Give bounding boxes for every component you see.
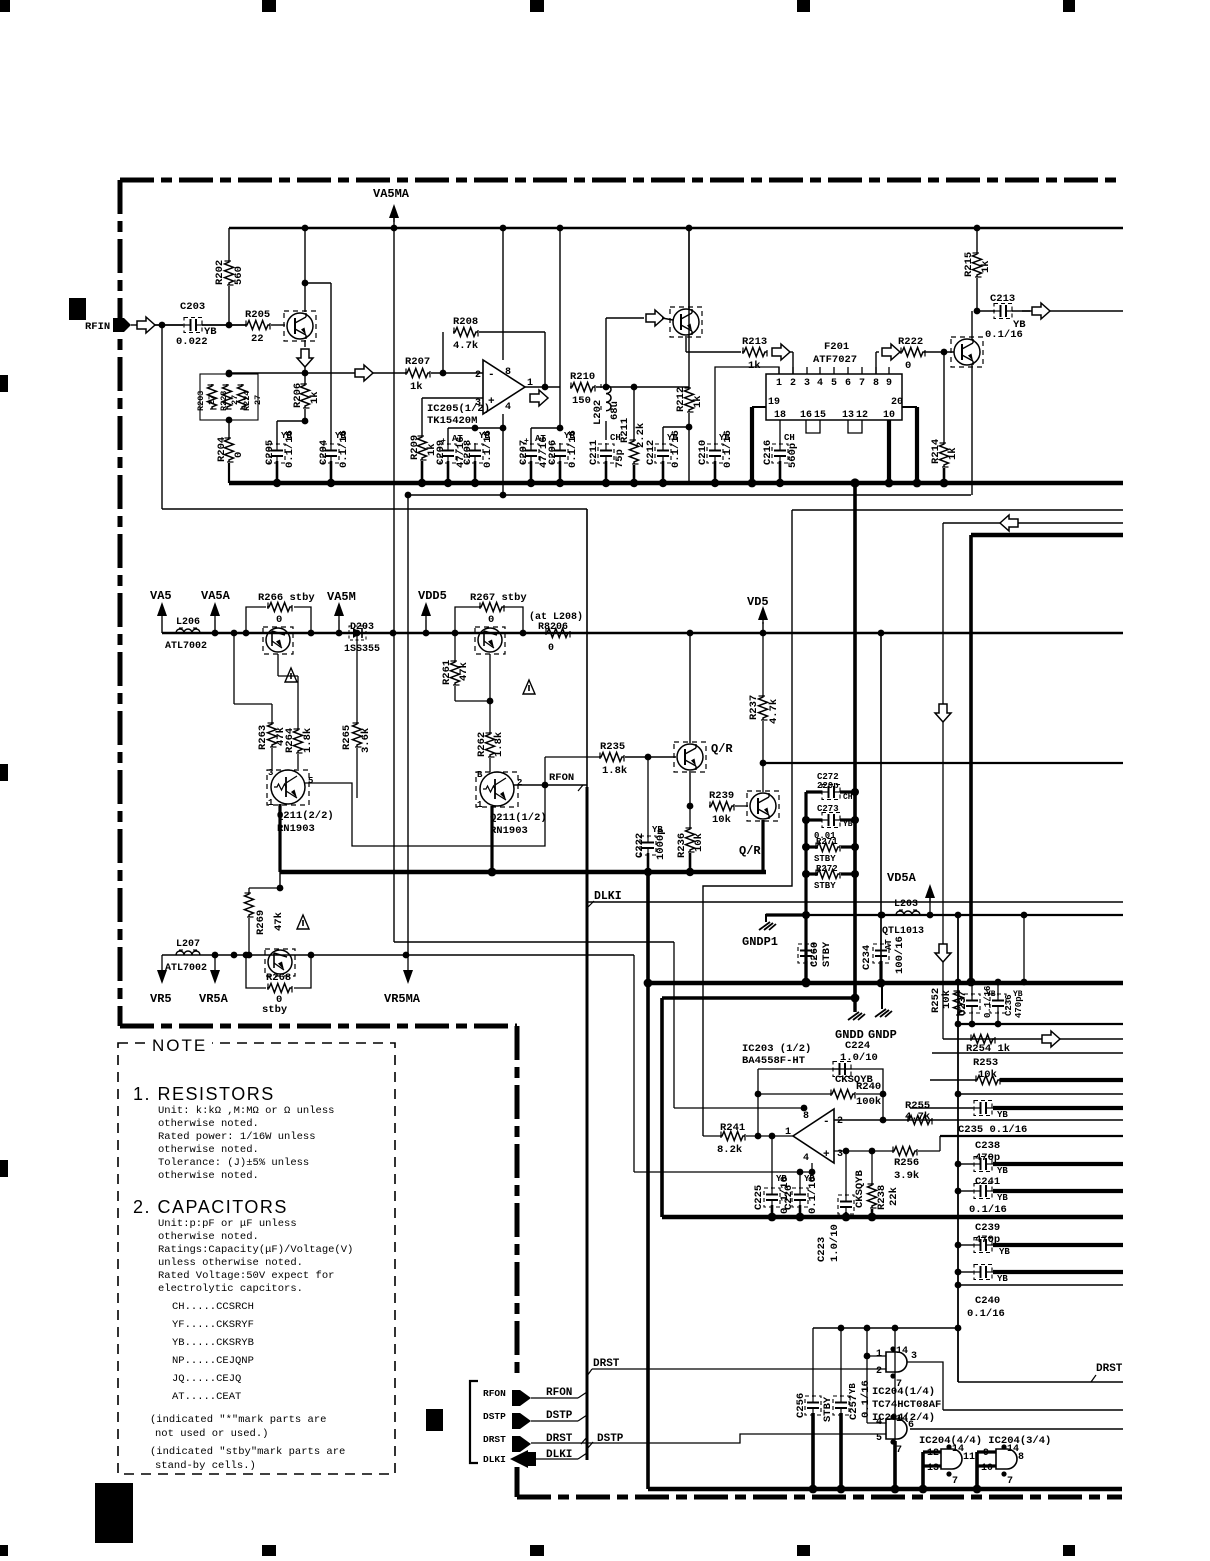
svg-text:8: 8 <box>873 378 879 389</box>
capacitor C272 <box>828 786 830 798</box>
vertical x408 <box>407 495 409 955</box>
wire R253 y1080 <box>930 1079 976 1081</box>
svg-text:C203: C203 <box>180 301 205 313</box>
svg-text:CH.....CCSRCH: CH.....CCSRCH <box>172 1301 254 1313</box>
svg-text:1k: 1k <box>980 260 992 273</box>
svg-text:R268: R268 <box>266 972 291 984</box>
wire y1328 <box>813 1327 958 1329</box>
resistor R211 <box>633 387 635 439</box>
resistor block R203 R223 R224 <box>200 374 258 420</box>
pin3 wire + R209 <box>422 397 483 399</box>
svg-text:470p: 470p <box>1014 996 1024 1018</box>
resistor R202 <box>228 228 230 260</box>
svg-text:C211: C211 <box>588 440 600 465</box>
svg-text:Ratings:Capacity(μF)/Voltage(V: Ratings:Capacity(μF)/Voltage(V) <box>158 1244 353 1256</box>
svg-text:B: B <box>477 770 483 780</box>
resistor R264 <box>277 654 279 676</box>
svg-text:STBY: STBY <box>814 881 836 891</box>
svg-text:14: 14 <box>896 1346 908 1357</box>
svg-text:C226: C226 <box>783 1185 795 1210</box>
svg-text:DRST: DRST <box>593 1358 620 1370</box>
GNDD GNDP grounds <box>851 994 860 1003</box>
svg-text:10k: 10k <box>693 833 705 852</box>
svg-text:C216: C216 <box>762 440 774 465</box>
gate IC204(1/4) <box>886 1352 907 1372</box>
wire y942 <box>394 941 674 943</box>
capacitor C256 <box>807 1402 819 1404</box>
svg-text:CKSQYB: CKSQYB <box>854 1169 866 1208</box>
pin16-15 loop <box>806 420 820 433</box>
svg-text:1: 1 <box>776 378 782 389</box>
heavy x648 <box>646 872 650 1489</box>
svg-text:YB: YB <box>848 1383 858 1394</box>
capacitor C225 <box>771 1136 773 1189</box>
svg-text:VR5: VR5 <box>150 992 172 1006</box>
svg-text:+: + <box>823 1149 830 1161</box>
svg-text:R205: R205 <box>245 309 270 321</box>
collector join <box>971 311 973 340</box>
svg-text:560p: 560p <box>787 443 799 468</box>
svg-text:10k: 10k <box>941 990 953 1009</box>
svg-text:47k: 47k <box>273 912 285 931</box>
svg-text:otherwise noted.: otherwise noted. <box>158 1231 259 1243</box>
wire y1285 <box>958 1284 1123 1286</box>
gate IC204(2/4) <box>886 1419 907 1439</box>
wire y1094 <box>958 1093 1123 1095</box>
svg-text:1k: 1k <box>309 391 321 404</box>
vertical x634 <box>633 955 635 1172</box>
svg-text:2: 2 <box>475 370 481 381</box>
resistor R269 <box>249 887 280 889</box>
heavy bus y872 <box>280 870 766 875</box>
svg-text:7: 7 <box>859 378 865 389</box>
svg-text:YF.....CKSRYF: YF.....CKSRYF <box>172 1319 254 1331</box>
pin5 wire to RFON node <box>305 783 545 846</box>
svg-text:Unit:p:pF or μF unless: Unit:p:pF or μF unless <box>158 1218 297 1230</box>
capacitor C222 <box>647 757 649 838</box>
wire R254 y1039 <box>943 1038 1123 1040</box>
capacitor C204 <box>325 450 337 452</box>
svg-text:10: 10 <box>883 410 895 421</box>
wire y1136 <box>940 1135 1123 1137</box>
svg-text:12: 12 <box>856 410 868 421</box>
svg-text:4.7k: 4.7k <box>768 699 780 724</box>
svg-text:-: - <box>823 1116 830 1128</box>
svg-text:4: 4 <box>505 402 511 413</box>
heavy x855 GNDD <box>853 483 857 998</box>
svg-text:0.1/16: 0.1/16 <box>567 430 579 468</box>
svg-text:22k: 22k <box>888 1187 900 1206</box>
svg-text:0.1/16: 0.1/16 <box>860 1380 872 1418</box>
registration marks <box>0 0 10 12</box>
svg-text:1.0/10: 1.0/10 <box>829 1224 841 1262</box>
svg-text:R223: R223 <box>219 391 229 411</box>
svg-text:15: 15 <box>814 410 826 421</box>
NOTE box <box>118 1043 395 1474</box>
capacitor C260 <box>800 950 812 952</box>
svg-text:BA4558F-HT: BA4558F-HT <box>742 1055 805 1067</box>
capacitor C210 <box>709 450 721 452</box>
svg-text:R212: R212 <box>675 387 687 412</box>
emitter heavy to bus <box>761 820 764 872</box>
svg-text:TC74HCT08AF: TC74HCT08AF <box>872 1399 941 1411</box>
resistor R236 <box>689 806 691 827</box>
svg-text:-: - <box>488 369 495 381</box>
transistor QR1 <box>677 744 703 770</box>
svg-text:Rated Voltage:50V expect for: Rated Voltage:50V expect for <box>158 1270 334 1282</box>
svg-text:YB: YB <box>999 1247 1010 1257</box>
svg-text:DRST: DRST <box>483 1434 506 1445</box>
svg-text:560: 560 <box>233 266 245 285</box>
pin4 wire <box>502 414 504 495</box>
svg-text:8: 8 <box>803 1111 809 1122</box>
svg-text:R271: R271 <box>816 837 838 847</box>
pin8 wire <box>674 1107 804 1109</box>
pin3 wire R256 <box>834 1150 892 1152</box>
svg-text:0: 0 <box>905 360 911 372</box>
svg-text:150: 150 <box>572 395 591 407</box>
svg-text:9: 9 <box>886 378 892 389</box>
svg-text:L202: L202 <box>592 400 604 425</box>
heavy bus y535 <box>971 533 1123 538</box>
svg-text:GNDP1: GNDP1 <box>742 935 778 949</box>
resistor R204 <box>228 420 230 437</box>
svg-text:2: 2 <box>517 778 522 788</box>
svg-text:R236: R236 <box>676 833 688 858</box>
wire DLKI y902 <box>587 901 1123 903</box>
collector to rail <box>688 228 690 309</box>
svg-text:NP.....CEJQNP: NP.....CEJQNP <box>172 1355 254 1367</box>
resistor R271 <box>806 845 818 848</box>
svg-text:1. RESISTORS: 1. RESISTORS <box>133 1084 275 1104</box>
pin2 wire R255 <box>907 1116 932 1125</box>
svg-text:YB: YB <box>997 1274 1008 1284</box>
R268 loop below <box>246 955 266 988</box>
wire C241 y1191 <box>958 1190 973 1192</box>
svg-text:1k: 1k <box>692 395 704 408</box>
svg-text:R256: R256 <box>894 1157 919 1169</box>
svg-text:C239: C239 <box>975 1222 1000 1234</box>
svg-text:20: 20 <box>891 397 903 408</box>
wire collector <box>304 228 306 312</box>
svg-text:VA5A: VA5A <box>201 589 231 603</box>
wire y373 <box>229 372 406 374</box>
capacitor C226 <box>799 1172 801 1189</box>
transistor T1 <box>266 628 290 652</box>
svg-text:DSTP: DSTP <box>483 1411 506 1422</box>
resistor R265 <box>356 633 358 722</box>
wire C239 y1245 <box>958 1244 973 1246</box>
svg-text:IC203 (1/2): IC203 (1/2) <box>742 1043 811 1055</box>
capacitor C241 <box>980 1185 982 1197</box>
connector bracket <box>470 1381 478 1463</box>
svg-text:DRST: DRST <box>546 1433 573 1445</box>
svg-text:6: 6 <box>845 378 851 389</box>
svg-text:L203: L203 <box>894 899 918 910</box>
svg-text:YB: YB <box>997 1166 1008 1176</box>
svg-text:R239: R239 <box>709 790 734 802</box>
wire C213 out y311 <box>1022 310 1123 312</box>
resistor R214 <box>943 352 945 442</box>
svg-text:27: 27 <box>230 395 240 405</box>
svg-text:stand-by cells.): stand-by cells.) <box>155 1460 256 1472</box>
resistor R253 <box>975 1076 1000 1085</box>
wire y1053 <box>932 1052 1123 1054</box>
svg-text:0: 0 <box>233 452 245 458</box>
svg-text:R264: R264 <box>284 728 296 753</box>
pin8 wire to R222 <box>875 352 877 374</box>
capacitor C239 <box>980 1239 982 1251</box>
svg-text:C240: C240 <box>975 1295 1000 1307</box>
svg-text:VR5A: VR5A <box>199 992 229 1006</box>
svg-text:R237: R237 <box>748 695 760 720</box>
vertical x943 arrows <box>942 523 944 1039</box>
op-amp IC205 <box>483 360 525 414</box>
wire DRST y1382 <box>958 1381 1123 1383</box>
svg-text:0: 0 <box>548 643 554 654</box>
svg-text:stby: stby <box>262 1004 288 1016</box>
rail y633 <box>162 632 1123 634</box>
svg-text:1000p: 1000p <box>655 828 667 860</box>
heavy ground y1489 <box>648 1487 1122 1492</box>
capacitor C203 <box>190 319 192 331</box>
capacitor C212 <box>657 450 669 452</box>
svg-text:0.1/16: 0.1/16 <box>482 430 494 468</box>
emitter heavy <box>490 806 493 872</box>
svg-text:VD5: VD5 <box>747 595 769 609</box>
svg-text:ATL7002: ATL7002 <box>165 641 207 652</box>
inductor L203 <box>896 911 920 915</box>
svg-text:R209: R209 <box>409 435 421 460</box>
svg-text:C224: C224 <box>845 1040 870 1052</box>
svg-text:3.9k: 3.9k <box>894 1170 919 1182</box>
svg-text:3: 3 <box>804 378 810 389</box>
wire y523 with left arrow <box>943 522 1123 524</box>
svg-text:3.6k: 3.6k <box>360 728 372 753</box>
wire gate2 out y1429 <box>910 1428 1123 1430</box>
svg-text:Q/R: Q/R <box>739 844 761 858</box>
svg-text:C208: C208 <box>462 440 474 465</box>
svg-text:CH: CH <box>843 793 853 802</box>
svg-text:C237: C237 <box>957 991 969 1016</box>
svg-text:Rated power: 1/16W unless: Rated power: 1/16W unless <box>158 1131 316 1143</box>
svg-text:C234: C234 <box>861 945 873 970</box>
heavy x662 + y998 arm <box>660 998 664 1217</box>
svg-text:18: 18 <box>774 410 786 421</box>
svg-text:13: 13 <box>842 410 854 421</box>
resistor R262 <box>489 654 491 732</box>
svg-text:R267 stby: R267 stby <box>470 592 527 604</box>
svg-text:VD5A: VD5A <box>887 871 917 885</box>
svg-text:4: 4 <box>803 1153 809 1164</box>
capacitor C236 <box>997 982 999 996</box>
svg-text:C205: C205 <box>264 440 276 465</box>
inductor L207 <box>176 951 200 955</box>
warning mark <box>523 680 535 694</box>
svg-text:RFON: RFON <box>546 1387 572 1399</box>
svg-text:VA5M: VA5M <box>327 590 356 604</box>
wire C235 y1108 <box>910 1107 973 1109</box>
stem x958 <box>957 915 959 1382</box>
svg-text:4.7k: 4.7k <box>905 1111 930 1123</box>
svg-text:1.8k: 1.8k <box>302 728 314 753</box>
pin19 heavy gnd <box>752 406 766 408</box>
svg-text:10k: 10k <box>712 814 731 826</box>
warning mark <box>285 668 297 682</box>
capacitor C213 <box>977 310 995 312</box>
resistor R212 <box>688 228 690 387</box>
svg-text:C256: C256 <box>795 1393 807 1418</box>
svg-text:14: 14 <box>1007 1444 1019 1455</box>
wire R263 <box>233 633 235 704</box>
svg-text:IC204(4/4) IC204(3/4): IC204(4/4) IC204(3/4) <box>919 1435 1051 1447</box>
capacitor C273 <box>806 818 822 821</box>
transistor T4 <box>268 950 292 974</box>
svg-text:ATF7027: ATF7027 <box>813 354 857 366</box>
svg-text:DSTP: DSTP <box>546 1410 573 1422</box>
svg-text:DLKI: DLKI <box>594 890 622 903</box>
svg-text:R224: R224 <box>242 391 252 411</box>
svg-text:IC204(2/4): IC204(2/4) <box>872 1412 935 1424</box>
svg-text:not used or used.): not used or used.) <box>155 1428 268 1440</box>
svg-text:19: 19 <box>768 397 780 408</box>
wire y495 <box>408 494 971 496</box>
emitter down to y495 <box>971 365 973 495</box>
svg-text:2: 2 <box>876 1366 882 1377</box>
svg-text:14: 14 <box>952 1444 964 1455</box>
wire gate1 out y1410 <box>943 1409 1123 1411</box>
svg-text:R265: R265 <box>341 725 353 750</box>
wire cap y1272 <box>958 1271 973 1273</box>
svg-text:2: 2 <box>790 378 796 389</box>
pin4 wire <box>634 1171 812 1173</box>
pin8 wire <box>502 228 504 360</box>
svg-text:C238: C238 <box>975 1140 1000 1152</box>
svg-text:R272: R272 <box>816 864 838 874</box>
svg-text:RN1903: RN1903 <box>490 825 528 837</box>
output node <box>525 386 560 388</box>
svg-text:C222: C222 <box>634 833 646 858</box>
svg-text:TK15420M: TK15420M <box>427 415 477 427</box>
transistor Q202 <box>673 309 699 335</box>
resistor R208 feedback <box>442 332 444 373</box>
svg-text:0.1/16: 0.1/16 <box>284 430 296 468</box>
svg-text:4.7k: 4.7k <box>453 340 478 352</box>
svg-text:1: 1 <box>876 1349 882 1360</box>
transistor Q211(2/2) <box>271 770 305 804</box>
gate IC204(4/4) <box>941 1449 962 1469</box>
svg-text:3: 3 <box>911 1351 917 1362</box>
svg-text:IC204(1/4): IC204(1/4) <box>872 1386 935 1398</box>
svg-text:27: 27 <box>207 395 217 405</box>
resistor R240 <box>757 1069 759 1136</box>
svg-text:electrolytic capcitors.: electrolytic capcitors. <box>158 1283 303 1295</box>
svg-text:R213: R213 <box>742 336 767 348</box>
resistor R205 <box>245 321 270 330</box>
wire to arrow/transistor base <box>605 318 607 387</box>
wire rail y228 <box>229 227 1123 229</box>
svg-text:Q/R: Q/R <box>711 742 733 756</box>
svg-text:C273: C273 <box>817 804 839 814</box>
svg-text:STBY: STBY <box>822 1396 834 1422</box>
svg-text:C225: C225 <box>753 1185 765 1210</box>
svg-text:0.1/16: 0.1/16 <box>670 430 682 468</box>
pin10 heavy gnd <box>887 420 891 483</box>
resistor R261 <box>454 633 456 660</box>
resistor R254 <box>970 1035 995 1044</box>
svg-text:otherwise noted.: otherwise noted. <box>158 1144 259 1156</box>
resistor R252 <box>954 990 963 1015</box>
svg-text:11: 11 <box>963 1452 975 1463</box>
svg-text:4: 4 <box>817 378 823 389</box>
svg-text:otherwise noted.: otherwise noted. <box>158 1118 259 1130</box>
R266 stby loop <box>246 607 266 633</box>
svg-text:DLKI: DLKI <box>546 1449 572 1461</box>
svg-text:YB.....CKSRYB: YB.....CKSRYB <box>172 1337 254 1349</box>
resistor R213 <box>686 351 741 353</box>
capacitor C207 <box>530 428 532 445</box>
svg-text:R253: R253 <box>973 1057 998 1069</box>
svg-text:100/16: 100/16 <box>894 936 906 974</box>
svg-text:1.8k: 1.8k <box>493 732 505 757</box>
svg-text:Q211(2/2): Q211(2/2) <box>277 810 334 822</box>
svg-text:3: 3 <box>268 768 273 778</box>
vertical x1024 <box>1023 915 1025 982</box>
heavy x971 <box>969 535 973 982</box>
svg-text:7: 7 <box>952 1476 958 1487</box>
svg-text:JQ.....CEJQ: JQ.....CEJQ <box>172 1373 241 1385</box>
capacitor C242 <box>980 1266 982 1278</box>
svg-text:R207: R207 <box>405 356 430 368</box>
svg-text:R261: R261 <box>441 660 453 685</box>
svg-text:220p: 220p <box>817 781 839 791</box>
capacitor C206 <box>554 450 566 452</box>
vertical x674 <box>673 942 675 1108</box>
svg-text:VA5MA: VA5MA <box>373 187 410 201</box>
svg-text:Tolerance: (J)±5% unless: Tolerance: (J)±5% unless <box>158 1157 309 1169</box>
svg-text:VDD5: VDD5 <box>418 589 447 603</box>
frame border <box>120 178 1122 183</box>
svg-text:1k: 1k <box>748 360 761 372</box>
svg-text:0.022: 0.022 <box>176 336 208 348</box>
svg-text:R266 stby: R266 stby <box>258 592 315 604</box>
capacitor C209 <box>447 428 449 445</box>
resistor R206 <box>304 373 306 383</box>
svg-text:7: 7 <box>1007 1476 1013 1487</box>
svg-text:R208: R208 <box>453 316 478 328</box>
svg-text:R206: R206 <box>292 383 304 408</box>
resistor R239 <box>709 802 734 811</box>
capacitor C238 <box>980 1158 982 1170</box>
svg-text:C223: C223 <box>816 1237 828 1262</box>
svg-text:1: 1 <box>268 798 274 808</box>
svg-text:R203: R203 <box>196 391 206 411</box>
svg-text:CH: CH <box>784 433 795 443</box>
svg-text:R211: R211 <box>619 418 631 443</box>
svg-text:R240: R240 <box>856 1081 881 1093</box>
svg-text:F201: F201 <box>824 341 849 353</box>
svg-text:R263: R263 <box>257 725 269 750</box>
svg-text:0: 0 <box>488 614 494 626</box>
wire y510 right <box>792 509 1123 511</box>
svg-text:unless otherwise noted.: unless otherwise noted. <box>158 1257 303 1269</box>
svg-text:DLKI: DLKI <box>483 1454 506 1465</box>
resistor R235 <box>544 757 546 785</box>
svg-text:C257: C257 <box>848 1395 860 1420</box>
svg-text:16: 16 <box>800 410 812 421</box>
svg-text:75p: 75p <box>614 449 626 468</box>
svg-text:R222: R222 <box>898 336 923 348</box>
